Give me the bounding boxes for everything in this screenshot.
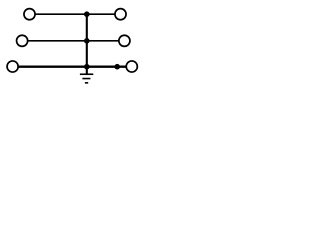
node junction row3 right [114,64,120,70]
wire row3 horizontal (PE) [13,66,132,68]
node junction row3 bus [84,64,90,70]
terminal circle row3 left [7,61,18,72]
wire vertical bus [86,14,88,74]
terminal circle row2 left [17,35,28,46]
wire row2 horizontal [22,40,124,42]
terminal circle row1 left [24,9,35,20]
node junction row1 [84,11,90,17]
terminal circle row2 right [119,35,130,46]
terminal circle row1 right [115,9,126,20]
node junction row2 [84,38,90,44]
ground bar2 [82,78,90,80]
ground bar1 [80,73,93,75]
terminal circle row3 right [126,61,137,72]
wire row1 horizontal [30,13,121,15]
ground bar3 [85,82,88,84]
